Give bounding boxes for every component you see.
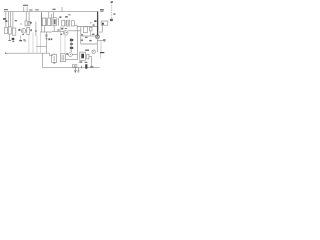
wire left arrow end bbox=[5, 53, 8, 54]
transistor Q2 bbox=[63, 30, 68, 35]
label x90 y66.4 bbox=[90, 66, 93, 67]
resistor R3 bbox=[27, 28, 30, 35]
wire x66 bbox=[65, 20, 67, 26]
wire rail drop x53.5 bbox=[53, 12, 55, 18]
connector J1 pin 1 bbox=[70, 39, 73, 41]
junction tick x46.4 bbox=[46, 38, 48, 39]
wire x44.7 to bus bbox=[44, 26, 46, 32]
label above Q2 bbox=[65, 28, 68, 29]
wire R lead down x9.6 bbox=[9, 34, 11, 41]
connector J1 pin 2 bbox=[70, 43, 73, 45]
battery BT1 box bbox=[80, 52, 86, 60]
microphone MIC bbox=[69, 53, 73, 57]
capacitor C20 bbox=[87, 54, 89, 59]
label antenna bbox=[113, 13, 115, 14]
connector J1 stem bbox=[70, 38, 72, 52]
wire y28 bbox=[60, 27, 64, 29]
switch S1 lead b bbox=[26, 7, 28, 12]
capacitor C5 bbox=[58, 29, 60, 30]
capacitor C30 on bottom rail bbox=[85, 64, 87, 68]
wire x100.6 bbox=[100, 53, 102, 59]
label R3 val bbox=[30, 29, 32, 31]
filter FL1 bbox=[62, 20, 65, 26]
label C11 bbox=[80, 40, 83, 41]
label Q2 bbox=[61, 28, 63, 29]
wire right of FL3 bbox=[74, 24, 77, 26]
label x90 y22.5 bbox=[90, 21, 92, 24]
resistor R5 bbox=[28, 21, 30, 25]
label below Q1 bbox=[22, 34, 24, 35]
wire x101 down bbox=[100, 40, 102, 52]
resistor R4 bbox=[25, 21, 27, 26]
wire x77.2 down bbox=[76, 25, 78, 31]
bottom rail y67.6 bbox=[43, 67, 100, 69]
wire y36 bbox=[81, 35, 96, 37]
resistor R10 bbox=[83, 27, 87, 33]
antenna lead bbox=[111, 3, 113, 19]
link wire x65 bbox=[64, 35, 66, 53]
wire x46.4 long vertical bbox=[45, 32, 47, 53]
filter FL3 bbox=[71, 21, 74, 26]
label S1 bbox=[23, 5, 28, 6]
lamp LA1 bbox=[95, 35, 99, 39]
label R1 bbox=[3, 18, 6, 20]
resistor R20 on rail bbox=[72, 65, 74, 68]
label above FL1 bbox=[59, 16, 61, 18]
wire LS1 down-left bbox=[99, 25, 102, 32]
speaker LS1 magnet bbox=[102, 23, 104, 25]
link wire x60.8 bbox=[60, 27, 62, 54]
wire mic out bbox=[72, 53, 77, 55]
wire step into crystal bbox=[50, 53, 53, 55]
connector J1 pin 3 bbox=[70, 47, 73, 49]
filter FL2 bbox=[67, 20, 70, 26]
label x85-89 y49.5 bbox=[85, 50, 89, 51]
label below R leads bbox=[12, 38, 15, 40]
label near rail corner line1 bbox=[100, 9, 104, 10]
crystal X1 bbox=[52, 55, 57, 63]
wire y44 bbox=[81, 43, 97, 45]
label R10 value bbox=[81, 34, 83, 35]
heavy supply drop bbox=[97, 11, 99, 35]
transformer T3 core bbox=[54, 19, 56, 24]
label near rail corner line2 bbox=[100, 10, 103, 13]
IF transformer T3 bbox=[53, 18, 56, 26]
link wire x33 bbox=[32, 33, 34, 54]
label K1a bbox=[48, 38, 50, 40]
resistor R21 on rail bbox=[75, 65, 77, 68]
ground bottom stub bbox=[75, 68, 78, 71]
resistor R2 bbox=[13, 28, 16, 35]
wire x51.7 bbox=[51, 14, 53, 26]
label below C20 bbox=[85, 62, 88, 63]
wire rail drop x12.9 bbox=[12, 12, 14, 28]
crystal X2 bbox=[60, 54, 65, 62]
capacitor C4 plates bbox=[45, 35, 48, 36]
capacitor C1 bbox=[8, 27, 11, 34]
wire rail drop x29.1 bbox=[28, 12, 30, 22]
label x94 y20.5 bbox=[94, 20, 96, 22]
capacitor C2 bbox=[35, 22, 37, 36]
label x80 y61.5 bbox=[79, 61, 82, 62]
wire rail drop x26.2 bbox=[25, 12, 27, 21]
label C1 top bbox=[5, 20, 7, 22]
label Q1 bbox=[18, 29, 20, 31]
label K1b bbox=[51, 38, 53, 40]
label x13 y41 bbox=[13, 41, 15, 42]
battery BT1 cell mark bbox=[81, 54, 84, 59]
transistor Q1 junction dot bbox=[25, 30, 26, 31]
wire y26.5 to supply bbox=[77, 26, 97, 28]
transistor Q1 bbox=[21, 29, 26, 34]
transistor Q2 bar bbox=[64, 31, 66, 34]
wire rail drop x10.7 bbox=[10, 12, 12, 27]
antenna tip bar bbox=[111, 1, 114, 2]
wire x42.5 down to bottom rail bbox=[42, 53, 44, 67]
wire x41.3 left of T1 bbox=[40, 13, 42, 26]
label +9V bbox=[4, 9, 8, 10]
ground bottom bars bbox=[74, 70, 76, 72]
label left of Q2 bbox=[60, 34, 62, 35]
label left of lamp bbox=[92, 34, 94, 35]
link wire x28.9 bbox=[28, 35, 30, 53]
wire base Q1 bbox=[20, 23, 22, 25]
wire x46.7 between T1 T2 bbox=[46, 18, 48, 26]
resistor R1 bbox=[5, 27, 8, 33]
wire junction y46.3 bbox=[36, 45, 46, 47]
ground right of lamp bbox=[103, 39, 106, 40]
wire Q2 out bbox=[68, 30, 81, 32]
wire x97.3 down bbox=[96, 39, 98, 53]
label plus sign bbox=[66, 53, 68, 55]
transistor Q1 bar bbox=[22, 30, 24, 33]
IF transformer T1 bbox=[42, 18, 45, 26]
wire rail drop x8.6 bbox=[8, 12, 10, 27]
label small x30 y22 bbox=[30, 22, 32, 24]
ground Q1 emitter bbox=[19, 40, 22, 41]
label x36 bbox=[35, 9, 39, 10]
wire x80.8 vertical bbox=[80, 27, 82, 45]
speaker LS1 box bbox=[101, 21, 108, 25]
wire y31.5 into Q2 bbox=[52, 31, 64, 33]
wire x54.2 down bbox=[53, 26, 55, 31]
wire C20 right bbox=[89, 57, 92, 68]
label above C10 bbox=[93, 24, 95, 25]
earphone circle bbox=[92, 50, 95, 53]
ground left bbox=[8, 40, 11, 42]
label on/off bbox=[29, 9, 32, 10]
label dash x68.5 y14.5 bbox=[68, 14, 70, 15]
IF transformer T2 bbox=[48, 18, 51, 26]
label C9 bbox=[85, 37, 88, 38]
wire bus y32 bbox=[40, 31, 52, 33]
label above FL2 bbox=[65, 16, 68, 18]
wire rail drop x41.7 bbox=[41, 12, 43, 32]
dark dash right end bbox=[100, 52, 104, 53]
label below X1 bbox=[53, 63, 55, 64]
wire y59.7 bbox=[66, 59, 78, 61]
link wire x37 bbox=[36, 36, 38, 53]
wire rail drop x48.8 bbox=[48, 12, 50, 18]
label x89 y40 bbox=[89, 40, 91, 41]
label right of R2 bbox=[15, 20, 17, 21]
capacitor C10 bbox=[90, 27, 92, 37]
wire x77.4 long vertical bbox=[76, 31, 78, 60]
wire +9V top rail bbox=[4, 11, 98, 13]
label above rail x52 bbox=[52, 9, 55, 10]
wire lamp to right bbox=[98, 39, 105, 41]
long wire y53.2 bbox=[5, 52, 50, 54]
lead tick x81 bbox=[80, 66, 83, 68]
filter FL2 core bbox=[67, 21, 69, 25]
transistor Q2 dot bbox=[66, 32, 67, 33]
label dash near Q1 gnd bbox=[23, 39, 25, 40]
wire stub x62 above rail bbox=[61, 7, 63, 12]
wire Q1 emitter down bbox=[19, 36, 21, 40]
wire x58.5 bbox=[58, 18, 60, 26]
wire rail drop x5.9 bbox=[5, 12, 7, 28]
antenna element bbox=[110, 19, 113, 21]
link wire x40.6 bbox=[40, 32, 42, 53]
switch S1 lead a bbox=[23, 7, 25, 12]
